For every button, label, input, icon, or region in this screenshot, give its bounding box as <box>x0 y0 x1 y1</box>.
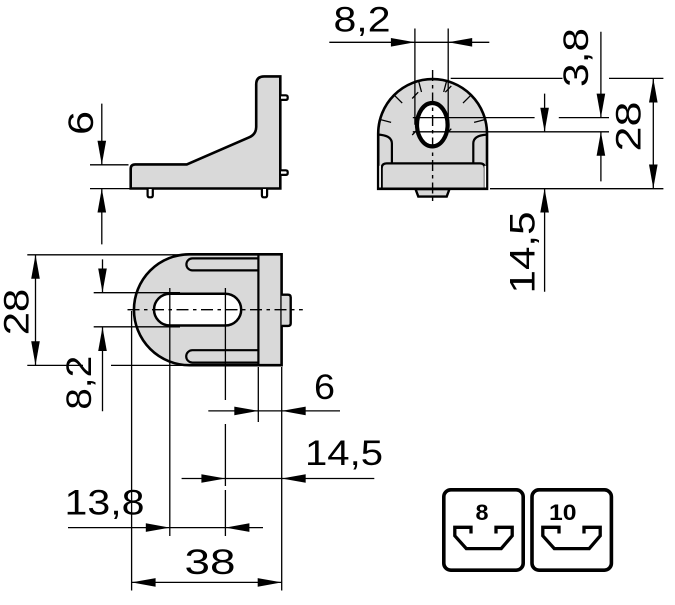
svg-text:10: 10 <box>549 500 577 525</box>
svg-text:28: 28 <box>610 102 649 152</box>
svg-text:8: 8 <box>476 500 489 525</box>
svg-text:6: 6 <box>62 111 101 135</box>
svg-text:6: 6 <box>314 368 335 407</box>
svg-text:14,5: 14,5 <box>305 434 383 473</box>
svg-text:8,2: 8,2 <box>60 356 99 410</box>
svg-text:3,8: 3,8 <box>557 28 596 87</box>
svg-text:28: 28 <box>0 289 37 336</box>
svg-text:14,5: 14,5 <box>504 212 543 294</box>
svg-text:38: 38 <box>185 543 236 582</box>
svg-text:13,8: 13,8 <box>65 484 145 523</box>
svg-text:8,2: 8,2 <box>334 1 391 40</box>
